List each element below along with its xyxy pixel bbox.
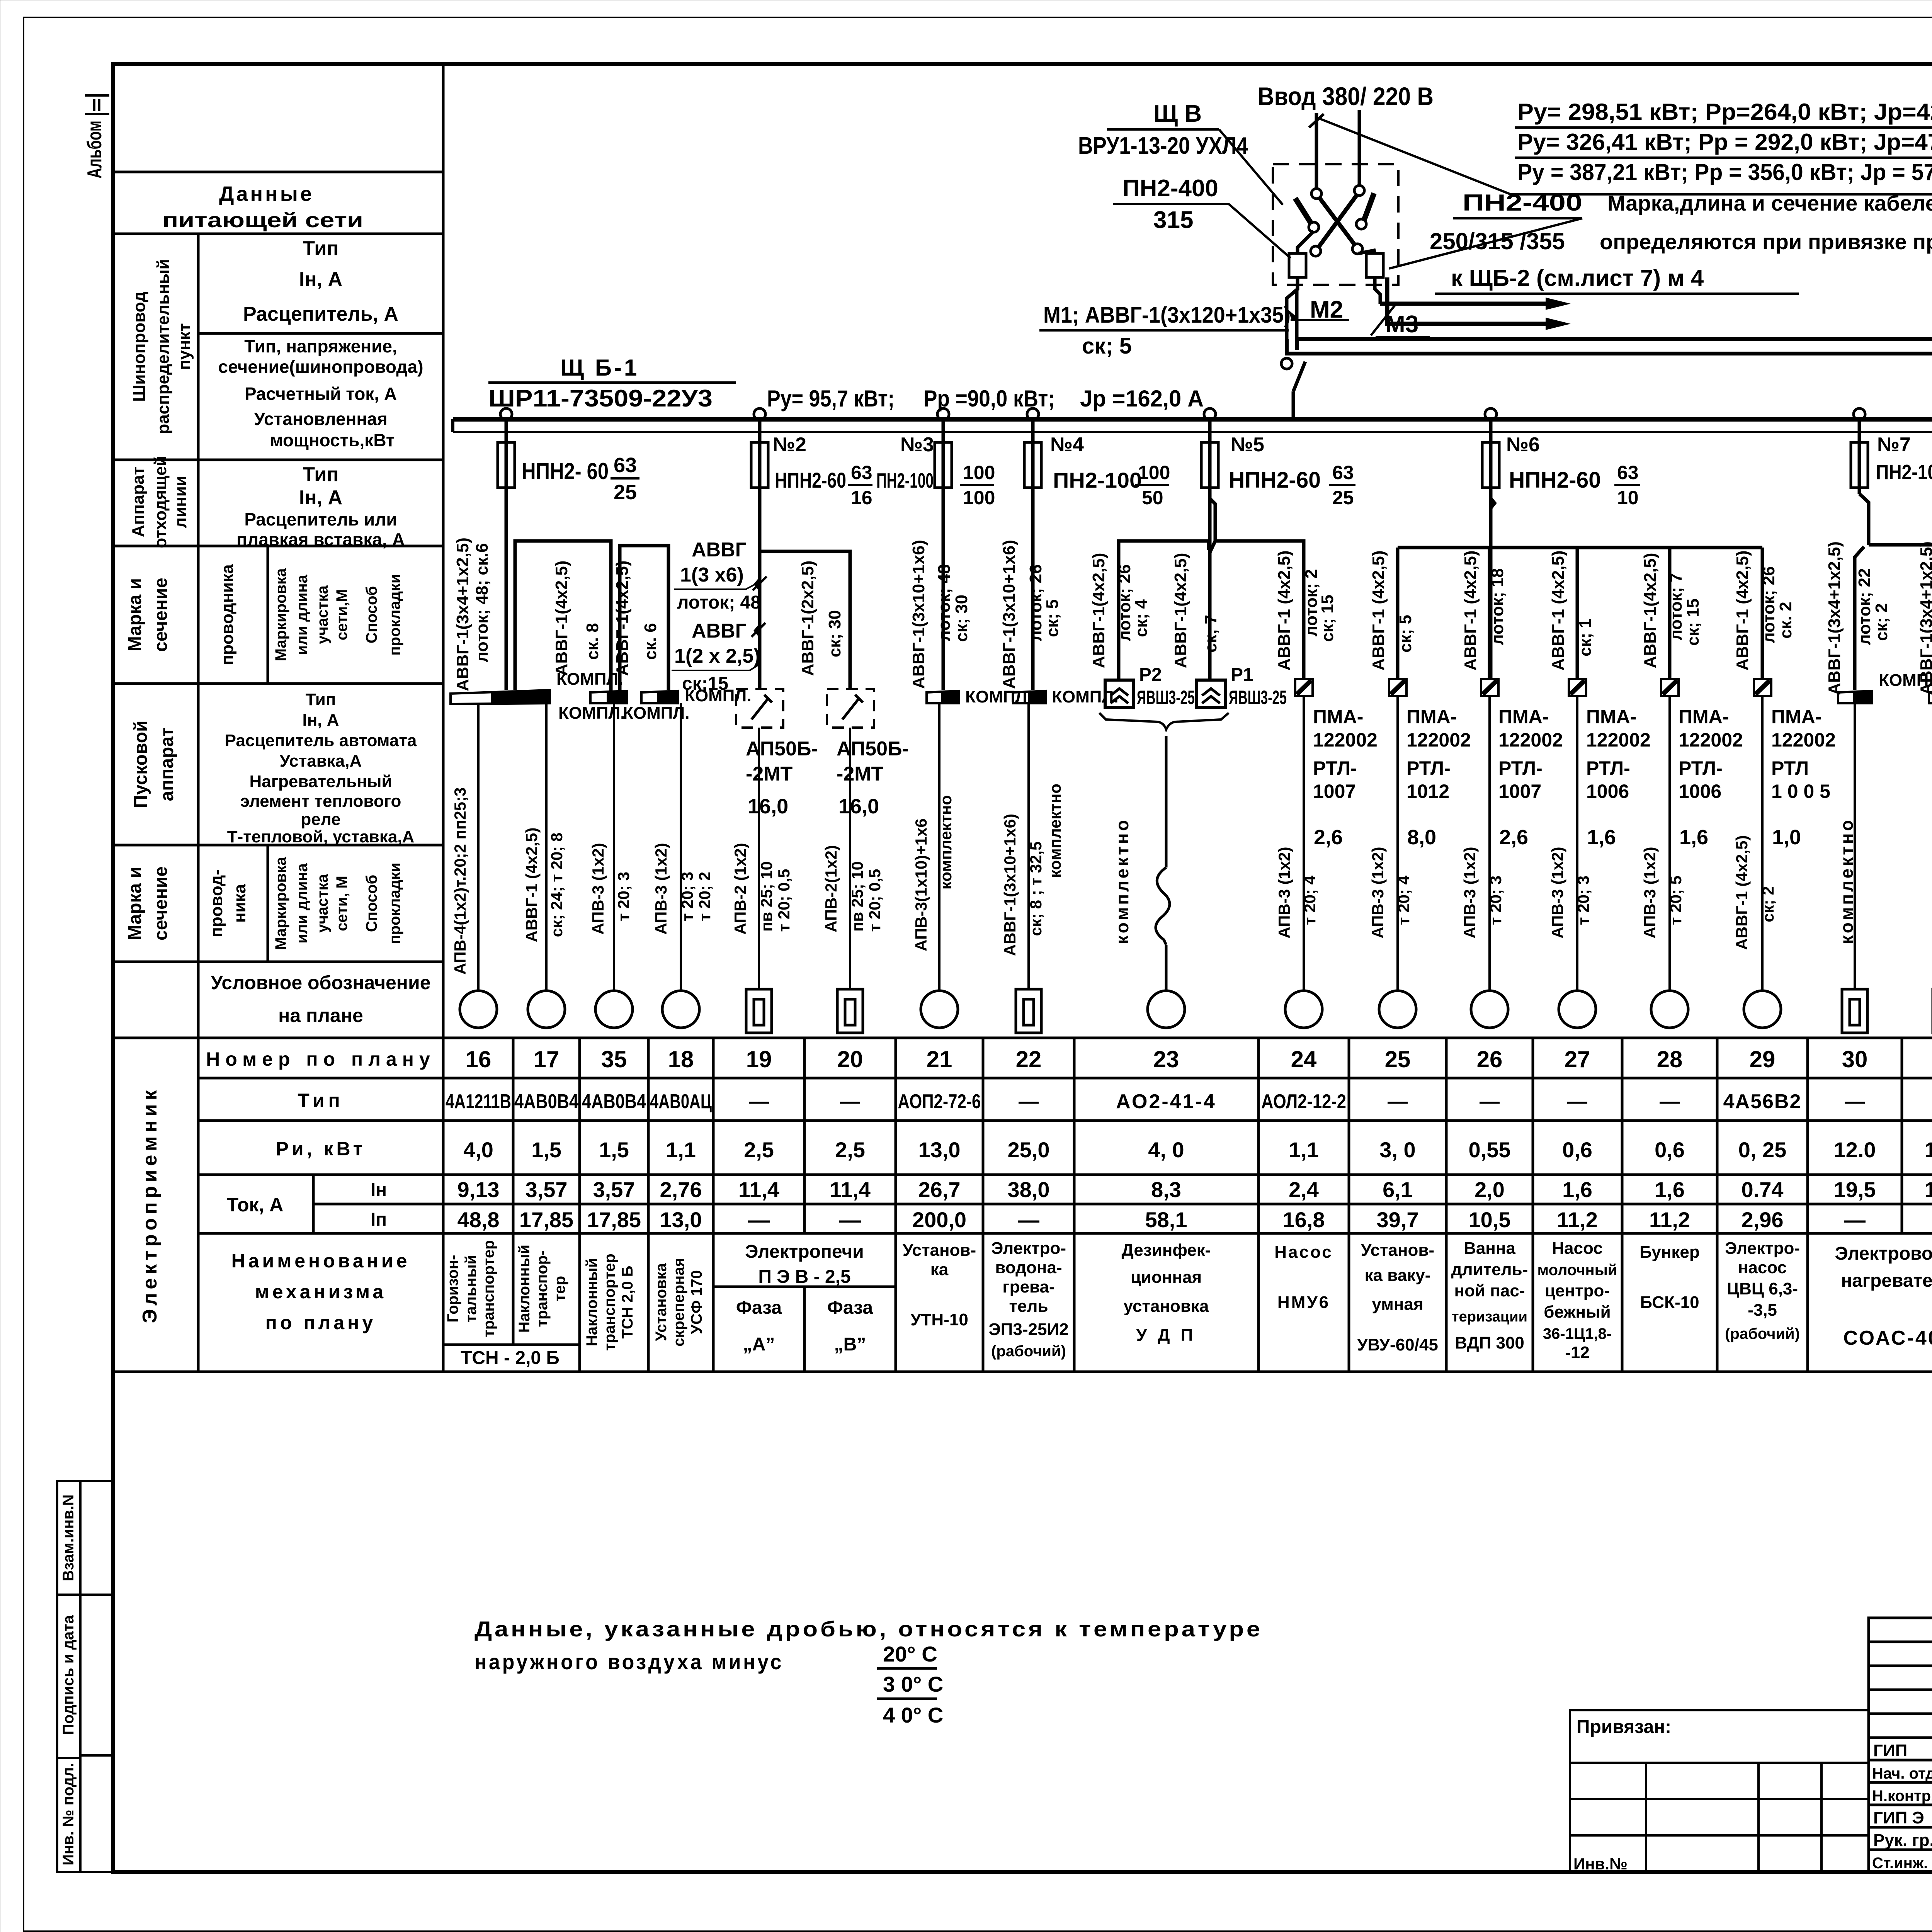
svg-text:РТЛ: РТЛ xyxy=(1771,757,1809,779)
svg-text:лоток; 22: лоток; 22 xyxy=(1855,568,1874,645)
svg-text:ск; 5: ск; 5 xyxy=(1043,599,1062,637)
svg-text:Способ: Способ xyxy=(363,586,380,643)
svg-text:Расчетный ток, А: Расчетный ток, А xyxy=(245,384,397,404)
svg-text:АВВГ-1 (4х2,5): АВВГ-1 (4х2,5) xyxy=(1275,550,1294,670)
svg-text:-2МТ: -2МТ xyxy=(837,763,884,785)
svg-text:ПМА-: ПМА- xyxy=(1679,706,1729,728)
svg-text:Марка и: Марка и xyxy=(125,867,145,940)
svg-text:комплектно: комплектно xyxy=(1927,818,1932,944)
flag компл. 35 xyxy=(558,691,627,723)
svg-text:Уставка,А: Уставка,А xyxy=(280,752,362,770)
svg-text:Iн, А: Iн, А xyxy=(299,486,342,509)
svg-text:8,3: 8,3 xyxy=(1151,1177,1181,1202)
svg-text:4А1211В: 4А1211В xyxy=(446,1090,511,1113)
svg-text:ск; 15: ск; 15 xyxy=(1318,595,1337,642)
svg-text:ВРУ1-13-20 УХЛ4: ВРУ1-13-20 УХЛ4 xyxy=(1078,133,1248,159)
svg-text:11,4: 11,4 xyxy=(738,1177,779,1202)
svg-text:Нагревательный: Нагревательный xyxy=(249,772,392,791)
svg-text:АВВГ-1 (4х2,5): АВВГ-1 (4х2,5) xyxy=(1549,550,1568,670)
wire drops 24-29 xyxy=(1304,696,1762,991)
svg-text:23: 23 xyxy=(1153,1046,1179,1072)
svg-text:25,0: 25,0 xyxy=(1008,1138,1050,1162)
wire loop 35-18 xyxy=(620,546,668,690)
svg-text:УТН-10: УТН-10 xyxy=(910,1310,968,1329)
switch to bus: contact circle xyxy=(1281,358,1292,369)
svg-text:АПВ-2(1х2): АПВ-2(1х2) xyxy=(822,845,840,932)
flag компл. 22 xyxy=(1013,687,1118,706)
wire bar branch 6 xyxy=(1491,488,1495,548)
motor symbol 23 xyxy=(1148,991,1185,1028)
fuse ПН2-400 left xyxy=(1287,231,1314,350)
svg-text:теризации: теризации xyxy=(1452,1309,1527,1325)
svg-text:25: 25 xyxy=(1385,1046,1411,1072)
svg-text:2,96: 2,96 xyxy=(1742,1207,1784,1232)
svg-text:63: 63 xyxy=(1332,462,1354,483)
wire to bus xyxy=(1292,391,1295,418)
svg-text:ск; 24; т 20; 8: ск; 24; т 20; 8 xyxy=(548,833,566,937)
wire drops 30-32 xyxy=(1855,703,1932,989)
svg-text:36-1Ц1,8-: 36-1Ц1,8- xyxy=(1543,1325,1612,1342)
svg-text:РТЛ-: РТЛ- xyxy=(1406,757,1451,779)
svg-text:Установка: Установка xyxy=(653,1263,670,1341)
wire drop 17 xyxy=(545,703,548,991)
svg-text:Р2: Р2 xyxy=(1139,665,1162,685)
svg-text:АВВГ-1(3х4+1х2,5): АВВГ-1(3х4+1х2,5) xyxy=(453,537,472,691)
label АВВГ 1(2х2,5) ск15 xyxy=(672,620,760,694)
svg-text:21: 21 xyxy=(927,1046,952,1072)
svg-text:М3: М3 xyxy=(1385,311,1418,338)
svg-text:Ру= 298,51 кВт; Рр=264,0 кВт;: Ру= 298,51 кВт; Рр=264,0 кВт; Jр=420,0 xyxy=(1517,99,1932,125)
svg-text:1007: 1007 xyxy=(1313,781,1356,802)
svg-text:1012: 1012 xyxy=(1406,781,1449,802)
svg-text:АВВГ-1(2х2,5): АВВГ-1(2х2,5) xyxy=(798,561,817,676)
section: Марка и сечение провод-ника (lower) xyxy=(125,857,403,950)
wire legs xyxy=(1396,548,1400,679)
svg-text:122002: 122002 xyxy=(1313,729,1378,751)
svg-text:ПН2-400: ПН2-400 xyxy=(1122,175,1218,202)
svg-text:№4: №4 xyxy=(1050,434,1084,456)
fuse F4 №4 ПН2-100 100/50 xyxy=(1024,419,1170,690)
svg-text:ск; 30: ск; 30 xyxy=(825,610,844,657)
svg-text:ск; 7: ск; 7 xyxy=(1201,615,1220,653)
svg-text:25: 25 xyxy=(1332,487,1354,509)
svg-text:сети, М: сети, М xyxy=(333,876,350,931)
svg-text:т 20; 3: т 20; 3 xyxy=(614,872,633,921)
svg-text:скреперная: скреперная xyxy=(670,1258,687,1347)
svg-text:АПВ-2 (1х2): АПВ-2 (1х2) xyxy=(731,843,749,934)
svg-text:Инв. № подл.: Инв. № подл. xyxy=(60,1763,77,1865)
svg-text:наружного воздуха минус: наружного воздуха минус xyxy=(474,1650,784,1674)
svg-text:Марка,длина и сечение кабелей: Марка,длина и сечение кабелей xyxy=(1607,191,1932,215)
svg-text:аппарат: аппарат xyxy=(157,728,177,801)
svg-text:НПН2-60: НПН2-60 xyxy=(1229,468,1321,493)
svg-text:315: 315 xyxy=(1153,207,1193,233)
wire bar branch 7 xyxy=(1869,545,1932,690)
svg-text:пв 25; 10: пв 25; 10 xyxy=(848,861,866,932)
motor symbol 17 xyxy=(528,991,565,1028)
svg-text:№2: №2 xyxy=(773,434,806,456)
svg-text:ВДП 300: ВДП 300 xyxy=(1455,1333,1524,1352)
wire drop 35 xyxy=(613,703,615,991)
svg-text:Шинопровод: Шинопровод xyxy=(130,291,149,402)
svg-text:лоток; 48: лоток; 48 xyxy=(677,592,761,613)
svg-text:линии: линии xyxy=(171,476,190,528)
svg-text:-3,5: -3,5 xyxy=(1748,1301,1777,1320)
svg-text:2,4: 2,4 xyxy=(1289,1177,1319,1202)
svg-text:4АВ0В4: 4АВ0В4 xyxy=(514,1090,578,1113)
heater symbol 22 xyxy=(1016,989,1041,1033)
svg-text:Номер по плану: Номер по плану xyxy=(206,1048,435,1070)
svg-text:АП50Б-: АП50Б- xyxy=(837,738,909,760)
svg-text:НМУ6: НМУ6 xyxy=(1277,1293,1330,1312)
wire feeder line B to ЩО xyxy=(1287,339,1932,1020)
svg-text:Щ Б-1: Щ Б-1 xyxy=(560,355,639,381)
svg-text:—: — xyxy=(1480,1090,1500,1113)
svg-text:12.0: 12.0 xyxy=(1834,1138,1876,1162)
svg-text:Ру= 95,7 кВт;: Ру= 95,7 кВт; xyxy=(767,386,895,412)
fuse F3 №3 ПН2-100 100/100 xyxy=(876,419,995,690)
svg-text:сечение(шинопровода): сечение(шинопровода) xyxy=(218,357,423,377)
switch blade to bus xyxy=(1293,362,1305,391)
svg-text:отходящей: отходящей xyxy=(151,456,170,548)
svg-text:Iн: Iн xyxy=(371,1180,387,1200)
svg-text:Электро-: Электро- xyxy=(1725,1239,1800,1258)
svg-text:АОЛ2-12-2: АОЛ2-12-2 xyxy=(1261,1090,1346,1113)
svg-text:Тип: Тип xyxy=(306,690,336,709)
svg-text:АПВ-3 (1х2): АПВ-3 (1х2) xyxy=(1548,847,1566,938)
flag компл. 30 xyxy=(1838,671,1932,703)
svg-text:—: — xyxy=(1019,1090,1039,1113)
svg-text:транспортер: транспортер xyxy=(601,1253,618,1350)
album label xyxy=(83,95,109,179)
svg-text:т 20; 5: т 20; 5 xyxy=(1667,876,1685,925)
svg-text:молочный: молочный xyxy=(1537,1262,1617,1279)
flag компл. 21 xyxy=(927,687,1032,706)
svg-text:100: 100 xyxy=(963,462,995,483)
svg-text:длитель-: длитель- xyxy=(1451,1260,1528,1279)
svg-text:19: 19 xyxy=(746,1046,772,1072)
wire feeder line A to ЗЯУ xyxy=(1297,339,1932,685)
svg-text:РТЛ-: РТЛ- xyxy=(1679,757,1723,779)
svg-text:транспор-: транспор- xyxy=(534,1250,551,1327)
section: Аппарат отходящей линии xyxy=(129,456,405,549)
svg-text:АВВГ-1(4х2,5): АВВГ-1(4х2,5) xyxy=(1089,553,1108,668)
switch QS1 crossing contacts xyxy=(1295,185,1374,256)
wire drop 23 xyxy=(1165,736,1168,867)
svg-text:сети,М: сети,М xyxy=(333,589,350,641)
svg-text:ПМА-: ПМА- xyxy=(1406,706,1457,728)
wire input phase L xyxy=(1315,113,1318,189)
wire kink branch5 xyxy=(1210,488,1215,680)
label ПН2-400 250/315/355 note xyxy=(1389,190,1932,269)
svg-text:АПВ-4(1х2)т.20;2 пп25;3: АПВ-4(1х2)т.20;2 пп25;3 xyxy=(451,787,469,975)
name row cells xyxy=(444,1240,705,1350)
svg-text:сечение: сечение xyxy=(151,866,171,940)
svg-text:АВВГ-1(4х2,5): АВВГ-1(4х2,5) xyxy=(552,561,571,676)
row: Ри кВт values xyxy=(463,1138,1932,1162)
svg-text:АВВГ-1(3х10+1х6): АВВГ-1(3х10+1х6) xyxy=(909,540,928,689)
svg-text:Тип: Тип xyxy=(298,1090,344,1111)
svg-text:16: 16 xyxy=(851,487,872,509)
svg-text:АВВГ-1(4х2,5): АВВГ-1(4х2,5) xyxy=(1171,553,1190,668)
svg-text:АВВГ-1 (4х2,5): АВВГ-1 (4х2,5) xyxy=(522,828,541,942)
svg-text:3, 0: 3, 0 xyxy=(1379,1138,1415,1162)
svg-text:27: 27 xyxy=(1565,1046,1590,1072)
svg-text:Установ-: Установ- xyxy=(1361,1241,1434,1260)
svg-text:Нач. отд: Нач. отд xyxy=(1872,1765,1932,1782)
svg-text:У Д П: У Д П xyxy=(1136,1326,1196,1345)
svg-text:ск; 2: ск; 2 xyxy=(1872,603,1891,641)
wire bar to col24 xyxy=(1215,541,1304,679)
svg-text:22: 22 xyxy=(1016,1046,1042,1072)
wire drop 19 xyxy=(758,728,760,989)
svg-text:Ванна: Ванна xyxy=(1464,1239,1515,1258)
row: Iн values xyxy=(457,1177,1932,1202)
motor symbols 24-29 xyxy=(1285,991,1781,1028)
leader line to formulas xyxy=(1318,118,1932,194)
header: Данные питающей сети xyxy=(162,182,363,232)
svg-text:АПВ-3 (1х2): АПВ-3 (1х2) xyxy=(589,843,607,934)
svg-text:АПВ-3 (1х2): АПВ-3 (1х2) xyxy=(1369,847,1387,938)
svg-text:или длина: или длина xyxy=(294,574,311,655)
svg-text:Подпись и дата: Подпись и дата xyxy=(60,1615,77,1735)
svg-text:—: — xyxy=(749,1090,769,1113)
svg-text:плавкая вставка, А: плавкая вставка, А xyxy=(236,529,405,549)
svg-text:1,6: 1,6 xyxy=(1562,1177,1592,1202)
svg-text:16,0: 16,0 xyxy=(748,795,788,818)
svg-text:Расцепитель или: Расцепитель или xyxy=(244,509,397,529)
svg-text:Марка и: Марка и xyxy=(125,578,145,651)
row: Iп values xyxy=(457,1207,1932,1232)
svg-text:3 0° С: 3 0° С xyxy=(883,1672,943,1696)
svg-text:200,0: 200,0 xyxy=(912,1207,966,1232)
section: Марка и сечение проводника (upper) xyxy=(125,564,403,665)
svg-text:0.74: 0.74 xyxy=(1742,1177,1784,1202)
label АП50Б-2МТ col19 xyxy=(746,738,818,818)
svg-text:ника: ника xyxy=(230,884,249,923)
svg-text:нагреватели: нагреватели xyxy=(1841,1270,1932,1291)
heater symbol 30 xyxy=(1842,989,1867,1033)
svg-text:Ру = 387,21 кВт; Рр = 356,0: Ру = 387,21 кВт; Рр = 356,0 кВт; Jр = 57… xyxy=(1517,159,1932,185)
svg-text:Фаза: Фаза xyxy=(736,1298,782,1318)
fuse F5 №5 НПН2-60 63/25 xyxy=(1201,419,1355,680)
svg-text:Iп: Iп xyxy=(371,1209,387,1230)
fuse ПН2-400 right xyxy=(1359,250,1383,304)
svg-text:определяются при привязке п: определяются при привязке проекта xyxy=(1600,230,1932,254)
svg-text:4, 0: 4, 0 xyxy=(1148,1138,1184,1162)
svg-text:СОАС-400: СОАС-400 xyxy=(1843,1327,1932,1349)
svg-text:—: — xyxy=(1845,1090,1865,1113)
svg-text:ск; 5: ск; 5 xyxy=(1082,333,1132,359)
flag компл. 18 xyxy=(623,686,751,723)
svg-text:насос: насос xyxy=(1738,1258,1787,1277)
svg-text:АПВ-3(1х10)+1х6: АПВ-3(1х10)+1х6 xyxy=(912,818,930,951)
wavy cable 23 xyxy=(1156,867,1170,945)
svg-text:ПМА-: ПМА- xyxy=(1498,706,1549,728)
svg-text:механизма: механизма xyxy=(255,1281,386,1303)
svg-text:Данные, указанные дробью, о: Данные, указанные дробью, относятся к те… xyxy=(474,1617,1263,1641)
svg-text:Маркировка: Маркировка xyxy=(272,857,289,950)
svg-text:1,1: 1,1 xyxy=(666,1138,696,1162)
svg-text:питающей сети: питающей сети xyxy=(162,209,363,232)
svg-text:лоток; 48; ск.6: лоток; 48; ск.6 xyxy=(473,543,492,663)
svg-text:Аппарат: Аппарат xyxy=(129,467,148,537)
svg-text:122002: 122002 xyxy=(1771,729,1836,751)
svg-text:Наименование: Наименование xyxy=(231,1250,410,1272)
svg-text:П Э В - 2,5: П Э В - 2,5 xyxy=(758,1267,850,1287)
label М1 cable xyxy=(1039,303,1291,359)
svg-text:Тип, напряжение,: Тип, напряжение, xyxy=(244,336,397,356)
svg-text:участка: участка xyxy=(314,585,331,644)
svg-text:58,1: 58,1 xyxy=(1145,1207,1187,1232)
wire branch 2 jogs xyxy=(756,488,760,689)
svg-text:63: 63 xyxy=(614,454,637,477)
svg-text:3,57: 3,57 xyxy=(593,1177,635,1202)
flag компл. 16-17 xyxy=(451,670,623,704)
svg-text:распределительный: распределительный xyxy=(154,259,173,434)
svg-text:лоток; 26: лоток; 26 xyxy=(1026,565,1045,641)
svg-text:ЦВЦ 6,3-: ЦВЦ 6,3- xyxy=(1727,1279,1798,1298)
label ПН2-400 / 315 xyxy=(1113,175,1291,258)
svg-text:(рабочий): (рабочий) xyxy=(991,1343,1066,1360)
svg-text:провод-: провод- xyxy=(207,869,226,937)
svg-text:ЯВШ3-25: ЯВШ3-25 xyxy=(1229,687,1287,708)
svg-text:63: 63 xyxy=(851,462,872,483)
row label: Условное обозначение на плане xyxy=(211,972,430,1026)
svg-text:тер: тер xyxy=(551,1276,568,1301)
svg-text:Тип: Тип xyxy=(303,463,338,486)
svg-text:РТЛ-: РТЛ- xyxy=(1313,757,1357,779)
svg-text:1 0 0 5: 1 0 0 5 xyxy=(1771,781,1830,802)
section: Шинопровод распределительный пункт xyxy=(130,237,423,450)
svg-text:3,57: 3,57 xyxy=(526,1177,568,1202)
wire drop 20 xyxy=(849,728,851,989)
svg-text:ционная: ционная xyxy=(1131,1268,1202,1287)
fuse F7 №7 ПН2-100 100/40 xyxy=(1851,419,1932,545)
wire loop 17-35 xyxy=(515,541,611,692)
flag компл. 31 xyxy=(1929,671,1932,703)
svg-text:РТЛ-: РТЛ- xyxy=(1586,757,1630,779)
svg-text:Наклонный: Наклонный xyxy=(583,1258,600,1346)
svg-text:Щ В: Щ В xyxy=(1153,100,1202,127)
svg-text:4А56В2: 4А56В2 xyxy=(1723,1090,1802,1113)
svg-text:16: 16 xyxy=(466,1046,492,1072)
svg-text:2,0: 2,0 xyxy=(1475,1177,1505,1202)
svg-text:ТСН 2,0 Б: ТСН 2,0 Б xyxy=(619,1266,636,1339)
svg-text:—: — xyxy=(839,1207,861,1232)
svg-text:ГИП Э: ГИП Э xyxy=(1873,1808,1924,1827)
svg-text:Фаза: Фаза xyxy=(827,1298,873,1318)
svg-text:Расцепитель автомата: Расцепитель автомата xyxy=(225,731,417,750)
box ЯВШ3-25 P2 xyxy=(1105,665,1195,708)
svg-text:АПВ-3 (1х2): АПВ-3 (1х2) xyxy=(1641,847,1659,938)
svg-text:122002: 122002 xyxy=(1586,729,1651,751)
svg-text:Установ-: Установ- xyxy=(903,1241,976,1260)
svg-text:Ввод 380/ 220 В: Ввод 380/ 220 В xyxy=(1258,82,1434,111)
svg-text:26,7: 26,7 xyxy=(918,1177,961,1202)
svg-text:т 20; 3: т 20; 3 xyxy=(678,872,696,921)
svg-text:ск; 2: ск; 2 xyxy=(1759,886,1777,922)
svg-text:30: 30 xyxy=(1842,1046,1868,1072)
svg-text:комплектно: комплектно xyxy=(1046,784,1064,878)
svg-text:Т-тепловой, уставка,А: Т-тепловой, уставка,А xyxy=(227,827,415,846)
svg-text:Ст.инж.: Ст.инж. xyxy=(1872,1855,1928,1872)
svg-text:М1; АВВГ-1(3х120+1х35): М1; АВВГ-1(3х120+1х35) xyxy=(1043,303,1291,328)
svg-text:0, 25: 0, 25 xyxy=(1738,1138,1787,1162)
svg-text:Тип: Тип xyxy=(303,237,338,260)
svg-text:ПН2-100: ПН2-100 xyxy=(1876,461,1932,484)
svg-text:4АВ0АЦ: 4АВ0АЦ xyxy=(650,1090,712,1113)
bus node circles xyxy=(500,408,1932,420)
cable mark М2 xyxy=(1287,296,1349,323)
row: Тип values xyxy=(446,1090,1932,1114)
svg-text:РТЛ-: РТЛ- xyxy=(1498,757,1543,779)
cable mark slash xyxy=(753,577,767,590)
svg-text:АВВГ: АВВГ xyxy=(692,620,747,642)
svg-text:Взам.инв.N: Взам.инв.N xyxy=(60,1495,77,1582)
heater symbol 20 xyxy=(837,989,863,1033)
svg-text:4 0° С: 4 0° С xyxy=(883,1703,943,1727)
fuse F2 №2 НПН2-60 63/16 xyxy=(751,419,872,689)
svg-text:участка: участка xyxy=(314,874,331,933)
svg-text:2,6: 2,6 xyxy=(1314,826,1343,849)
busbar ЩБ-1 xyxy=(453,419,1932,432)
svg-text:4,0: 4,0 xyxy=(463,1138,493,1162)
label к ЩБ-2 xyxy=(1435,265,1799,294)
svg-text:АВВГ-1(3х10+1х6): АВВГ-1(3х10+1х6) xyxy=(1000,540,1019,689)
svg-text:АВВГ-1(4х2,5): АВВГ-1(4х2,5) xyxy=(1641,553,1660,668)
svg-text:умная: умная xyxy=(1372,1295,1423,1314)
cabinet ЩВ dashed box xyxy=(1273,164,1398,285)
svg-text:Альбом: Альбом xyxy=(83,121,106,179)
svg-text:16,0: 16,0 xyxy=(838,795,879,818)
wire input phase R xyxy=(1358,110,1361,186)
svg-text:АП50Б-: АП50Б- xyxy=(746,738,818,760)
svg-text:прокладки: прокладки xyxy=(386,862,403,944)
svg-text:НПН2- 60: НПН2- 60 xyxy=(522,458,609,484)
svg-text:т 20; 3: т 20; 3 xyxy=(1574,876,1592,925)
svg-text:№5: №5 xyxy=(1231,434,1264,456)
wire к ЩБ-2 arrow 1 xyxy=(1380,298,1571,310)
svg-text:комплектно: комплектно xyxy=(1112,818,1132,944)
svg-text:Наклонный: Наклонный xyxy=(516,1245,533,1333)
svg-text:10,5: 10,5 xyxy=(1469,1207,1511,1232)
motor symbol 16 xyxy=(460,991,497,1028)
svg-text:ГИП: ГИП xyxy=(1873,1741,1907,1760)
svg-text:бежный: бежный xyxy=(1544,1303,1611,1321)
svg-text:11,2: 11,2 xyxy=(1557,1207,1598,1232)
svg-text:КОМПЛ.: КОМПЛ. xyxy=(623,704,689,723)
svg-text:11,2: 11,2 xyxy=(1649,1207,1690,1232)
svg-text:122002: 122002 xyxy=(1498,729,1563,751)
svg-text:39,7: 39,7 xyxy=(1377,1207,1419,1232)
svg-text:ПН2-100: ПН2-100 xyxy=(876,469,934,492)
svg-text:1007: 1007 xyxy=(1498,781,1541,802)
svg-text:„В”: „В” xyxy=(834,1334,866,1355)
svg-text:13,0: 13,0 xyxy=(660,1207,702,1232)
left ancillary table xyxy=(1570,1710,1869,1872)
svg-text:„А”: „А” xyxy=(743,1334,775,1355)
svg-text:ТСН - 2,0 Б: ТСН - 2,0 Б xyxy=(461,1348,560,1368)
svg-text:28: 28 xyxy=(1657,1046,1683,1072)
svg-text:1,6: 1,6 xyxy=(1655,1177,1685,1202)
svg-text:ПМА-: ПМА- xyxy=(1771,706,1821,728)
svg-text:УВУ-60/45: УВУ-60/45 xyxy=(1357,1335,1438,1354)
svg-text:ШР11-73509-22У3: ШР11-73509-22У3 xyxy=(488,385,713,412)
svg-text:АВВГ: АВВГ xyxy=(692,539,747,561)
breaker box АП50Б col19 xyxy=(736,689,783,728)
svg-text:20° С: 20° С xyxy=(883,1642,937,1666)
